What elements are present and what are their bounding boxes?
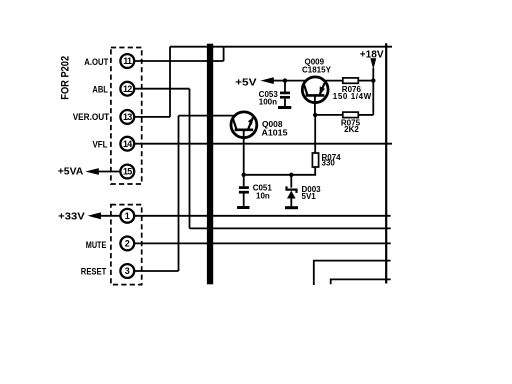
pin circle 1 (120, 209, 134, 223)
svg-text:ABL: ABL (92, 84, 108, 94)
wire vertical from top line down to VER.OUT wire (169, 47, 171, 117)
wire ABL horizontal to right block (190, 227, 391, 229)
wire VFL pin14 across to right block (134, 143, 392, 145)
svg-text:A1015: A1015 (262, 129, 289, 138)
power +5V arrow left (260, 77, 273, 84)
svg-text:3: 3 (125, 266, 130, 276)
svg-text:100n: 100n (259, 97, 277, 106)
node +18V junction dot (371, 78, 375, 82)
svg-text:VER.OUT: VER.OUT (73, 112, 110, 122)
svg-text:C1815Y: C1815Y (302, 66, 332, 75)
pin circle 14 (120, 137, 134, 151)
transistor Q008 (231, 112, 257, 186)
svg-text:A.OUT: A.OUT (84, 57, 108, 67)
svg-text:15: 15 (123, 167, 132, 177)
wire R075 to +18V rail (358, 114, 373, 116)
wire junction to R075 (315, 114, 343, 116)
ground C053 (278, 106, 291, 109)
node C051 junction dot (242, 173, 246, 177)
wire MUTE pin2 to right block (134, 242, 391, 244)
thick bus bar (207, 44, 213, 285)
resistor R076 (343, 78, 359, 83)
wire Q009 collector to R076 (323, 80, 343, 82)
svg-text:FOR P202: FOR P202 (59, 56, 71, 100)
power +18V arrow down (370, 58, 376, 69)
wire +5V node to Q009 base (285, 80, 307, 82)
capacitor C051 (239, 188, 249, 206)
wire +18V rail down to R075 (372, 81, 374, 115)
zener diode D003 (287, 175, 297, 207)
wire top horizontal line to right edge block (170, 46, 392, 48)
pin circle 13 (120, 110, 134, 124)
resistor R074 (312, 153, 318, 167)
arrow +5VA (left pointing) (97, 171, 120, 173)
svg-text:10n: 10n (256, 191, 270, 200)
connector dashed box P202 lower (pins 1-3) (111, 205, 142, 285)
svg-text:2: 2 (125, 239, 130, 249)
svg-text:+5VA: +5VA (58, 166, 84, 178)
svg-text:+33V: +33V (58, 210, 85, 222)
wire junction down to R074 (314, 115, 316, 153)
wire right block vertical edge (385, 43, 387, 283)
wire riser node A.OUT up to top bus line (223, 47, 225, 61)
wire L-corner lower right outer (314, 261, 391, 285)
wire R076 to +18V node (358, 80, 373, 82)
node D003 junction dot (289, 173, 293, 177)
svg-text:VFL: VFL (93, 140, 108, 150)
svg-text:RESET: RESET (81, 267, 107, 277)
wire ABL vertical drop (189, 89, 191, 229)
node +5V junction dot (283, 78, 287, 82)
wire VER.OUT pin13 (134, 116, 170, 118)
pin circle 15 (120, 165, 134, 179)
node Q009 emitter junction dot (313, 113, 317, 117)
svg-text:MUTE: MUTE (86, 240, 107, 250)
svg-text:12: 12 (123, 84, 132, 94)
svg-text:11: 11 (123, 56, 132, 66)
ground C051 (237, 206, 249, 209)
wire Q008 left terminal (179, 115, 236, 117)
svg-text:1: 1 (125, 211, 130, 221)
pin circle 3 (120, 264, 134, 278)
svg-text:150 1/4W: 150 1/4W (333, 92, 372, 101)
arrow +33V (left pointing) (99, 215, 121, 217)
svg-text:5V1: 5V1 (302, 192, 317, 201)
svg-text:14: 14 (123, 139, 132, 149)
svg-text:2K2: 2K2 (344, 125, 359, 134)
pin circle 11 (120, 54, 134, 68)
wire L-corner lower right inner (331, 279, 391, 284)
wire A.OUT pin11 to vertical riser (134, 60, 223, 62)
ground D003 (285, 206, 298, 209)
wire +33V pin1 to right block (134, 215, 390, 217)
wire ABL pin12 (134, 88, 189, 90)
svg-text:330: 330 (322, 159, 336, 168)
svg-text:13: 13 (123, 112, 132, 122)
wire RESET vertical riser to Q008 base wire (178, 116, 180, 271)
capacitor C053 (280, 81, 290, 106)
wire R074 bottom to node line (244, 167, 316, 175)
transistor Q009 (302, 77, 328, 115)
resistor R075 (343, 112, 359, 118)
pin circle 12 (120, 82, 134, 96)
wire RESET pin3 (134, 270, 178, 272)
svg-text:+5V: +5V (235, 76, 257, 88)
connector dashed box P202 upper (pins 11-15) (111, 48, 142, 185)
pin circle 2 (120, 237, 134, 251)
